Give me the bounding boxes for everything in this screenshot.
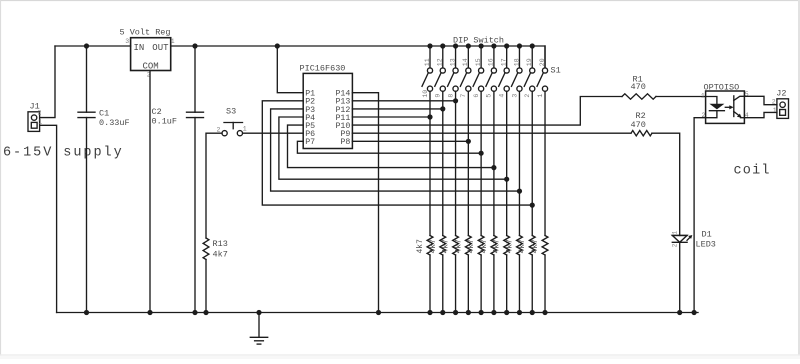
capacitor C1 xyxy=(78,46,95,313)
optocoupler U3 OPTOISO xyxy=(706,91,745,123)
svg-text:12: 12 xyxy=(437,58,444,66)
svg-text:P8: P8 xyxy=(340,138,350,147)
svg-text:15: 15 xyxy=(475,58,482,66)
LED D1 xyxy=(672,235,692,242)
svg-text:D1: D1 xyxy=(702,229,712,239)
wire input rail xyxy=(55,45,131,47)
wire R2 to D1 xyxy=(652,133,680,235)
junction column 6 bus xyxy=(491,310,496,315)
switch S1 section 3 xyxy=(448,46,459,236)
junction DIP column 6 rail xyxy=(491,43,496,48)
svg-text:LED3: LED3 xyxy=(696,240,716,250)
svg-text:J2: J2 xyxy=(776,88,786,98)
svg-text:10: 10 xyxy=(422,90,429,98)
switch S1 section 2 xyxy=(435,46,446,236)
svg-text:COM: COM xyxy=(143,61,159,71)
connector J1 xyxy=(28,112,40,132)
wire P9 to R2 xyxy=(352,132,631,134)
junction P7 column xyxy=(479,151,484,156)
wire P3 to DIP column xyxy=(271,109,520,191)
junction DIP column 8 rail xyxy=(517,43,522,48)
svg-text:1: 1 xyxy=(38,119,42,126)
svg-text:4k7: 4k7 xyxy=(505,239,514,254)
svg-text:2: 2 xyxy=(38,110,42,117)
switch S1 section 5 xyxy=(473,46,484,236)
svg-text:20: 20 xyxy=(539,58,546,66)
wire regulator COM to ground bus xyxy=(149,71,151,313)
junction column 5 bus xyxy=(479,310,484,315)
switch S1 section 1 xyxy=(422,46,433,236)
resistor R2 xyxy=(631,131,652,136)
resistor R2 4k7 xyxy=(427,236,433,313)
wire P13 to DIP column xyxy=(352,100,455,102)
svg-text:4k7: 4k7 xyxy=(442,239,451,254)
wire P5 to DIP column xyxy=(288,125,494,168)
junction column 10 bus xyxy=(542,310,547,315)
junction P8 column xyxy=(466,139,471,144)
frame bottom band xyxy=(0,354,800,355)
regulator U1 5 Volt Reg xyxy=(131,38,171,72)
frame right edge xyxy=(798,0,800,359)
switch S1 section 8 xyxy=(511,46,522,236)
wire P7 to DIP column xyxy=(297,141,481,153)
wire P2 to DIP column xyxy=(262,101,532,205)
junction P14 bus xyxy=(376,310,381,315)
resistor R9 4k7 xyxy=(517,236,523,313)
resistor R13 xyxy=(203,238,209,313)
svg-text:6: 6 xyxy=(473,94,480,98)
junction R13 bottom xyxy=(203,310,208,315)
wire opto pin5 to J2 pin2 xyxy=(744,96,777,104)
svg-text:19: 19 xyxy=(526,58,533,66)
wire P8 to DIP column xyxy=(352,140,468,142)
svg-text:4k7: 4k7 xyxy=(467,239,476,254)
ground symbol xyxy=(250,313,267,345)
resistor R5 4k7 xyxy=(465,236,471,313)
frame top edge xyxy=(0,0,800,1)
junction DIP column 2 rail xyxy=(440,43,445,48)
junction C1 bottom xyxy=(84,310,89,315)
svg-text:OPTOISO: OPTOISO xyxy=(704,82,740,92)
switch S1 section 7 xyxy=(499,46,510,236)
svg-text:4k7: 4k7 xyxy=(480,239,489,254)
svg-text:4k7: 4k7 xyxy=(518,239,527,254)
svg-text:4k7: 4k7 xyxy=(454,239,463,254)
svg-text:0.33uF: 0.33uF xyxy=(99,118,130,128)
svg-text:8: 8 xyxy=(447,94,454,98)
resistor R6 4k7 xyxy=(478,236,484,313)
svg-text:4: 4 xyxy=(498,94,505,98)
junction column 3 bus xyxy=(453,310,458,315)
wire ground bus xyxy=(57,312,698,314)
wire R1 to opto pin1 xyxy=(656,96,706,98)
svg-text:2: 2 xyxy=(524,94,531,98)
svg-text:14: 14 xyxy=(462,58,469,66)
svg-text:2: 2 xyxy=(772,98,776,105)
svg-text:6-15V supply: 6-15V supply xyxy=(3,145,124,160)
junction opto pin2 bus xyxy=(692,310,697,315)
frame left edge xyxy=(0,0,1,359)
svg-text:470: 470 xyxy=(631,120,646,130)
wire opto pin2 to ground bus xyxy=(694,118,706,313)
junction DIP column 4 rail xyxy=(466,43,471,48)
svg-text:P7: P7 xyxy=(305,138,315,147)
junction column 2 bus xyxy=(440,310,445,315)
junction column 9 bus xyxy=(530,310,535,315)
switch S1 section 9 xyxy=(524,46,535,236)
svg-text:4k7: 4k7 xyxy=(493,239,502,254)
svg-text:4k7: 4k7 xyxy=(429,239,438,254)
svg-text:5: 5 xyxy=(486,94,493,98)
svg-text:4k7: 4k7 xyxy=(213,250,228,260)
svg-text:5 Volt Reg: 5 Volt Reg xyxy=(120,28,171,38)
svg-text:13: 13 xyxy=(449,58,456,66)
svg-text:coil: coil xyxy=(734,164,771,179)
junction P5 column xyxy=(491,165,496,170)
connector J2 xyxy=(777,99,789,119)
wire P11 to DIP column xyxy=(352,116,430,118)
wire S3 pin1 to P6 xyxy=(243,132,304,134)
svg-text:4k7: 4k7 xyxy=(531,239,540,254)
resistor R3 4k7 xyxy=(440,236,446,313)
resistor R1 xyxy=(622,94,656,99)
wire +5V rail xyxy=(171,46,545,68)
junction ground xyxy=(256,310,261,315)
junction P11 column xyxy=(427,114,432,119)
svg-text:16: 16 xyxy=(488,58,495,66)
junction C1 top xyxy=(84,43,89,48)
svg-text:R13: R13 xyxy=(213,239,228,249)
junction DIP column 1 rail xyxy=(427,43,432,48)
junction C2 top xyxy=(192,43,197,48)
svg-text:3: 3 xyxy=(511,94,518,98)
wire opto pin4 to J2 pin1 xyxy=(744,112,777,117)
junction P2 column xyxy=(530,203,535,208)
svg-text:7: 7 xyxy=(460,94,467,98)
junction column 4 bus xyxy=(466,310,471,315)
junction DIP column 9 rail xyxy=(530,43,535,48)
svg-text:470: 470 xyxy=(631,82,646,92)
resistor R8 4k7 xyxy=(504,236,510,313)
junction COM bottom xyxy=(147,310,152,315)
switch S1 section 10 xyxy=(537,46,548,236)
junction C2 bottom xyxy=(192,310,197,315)
junction column 7 bus xyxy=(504,310,509,315)
junction P3 column xyxy=(517,189,522,194)
junction column 8 bus xyxy=(517,310,522,315)
junction P1 rail xyxy=(275,43,280,48)
wire P4 to DIP column xyxy=(279,117,507,179)
svg-text:DIP Switch: DIP Switch xyxy=(453,36,504,46)
wire J1 pin1 to ground bus xyxy=(40,125,57,312)
wire P14 to ground bus xyxy=(352,93,378,313)
svg-text:2: 2 xyxy=(671,243,678,247)
svg-text:1: 1 xyxy=(537,94,544,98)
switch S1 section 4 xyxy=(460,46,471,236)
svg-text:4k7: 4k7 xyxy=(416,239,425,254)
svg-text:3: 3 xyxy=(125,38,129,45)
svg-text:0.1uF: 0.1uF xyxy=(152,116,178,126)
svg-text:18: 18 xyxy=(513,58,520,66)
junction DIP column 5 rail xyxy=(479,43,484,48)
svg-text:OUT: OUT xyxy=(152,43,169,53)
svg-text:PIC16F630: PIC16F630 xyxy=(300,64,346,74)
svg-text:17: 17 xyxy=(500,58,507,66)
svg-text:1: 1 xyxy=(671,231,678,235)
microcontroller U2 PIC16F630 xyxy=(303,73,352,148)
junction P4 column xyxy=(504,177,509,182)
svg-text:1: 1 xyxy=(243,126,247,133)
svg-text:1: 1 xyxy=(171,38,175,45)
svg-text:1: 1 xyxy=(773,107,777,114)
junction DIP column 7 rail xyxy=(504,43,509,48)
wire P12 to DIP column xyxy=(352,108,442,110)
wire J1 pin2 to +5V rail xyxy=(40,46,55,118)
wire P1 to +5V rail xyxy=(277,46,303,93)
capacitor C2 xyxy=(187,46,204,313)
resistor R7 4k7 xyxy=(491,236,497,313)
resistor R4 4k7 xyxy=(453,236,459,313)
junction DIP column 3 rail xyxy=(453,43,458,48)
resistor R10 4k7 xyxy=(529,236,535,313)
wire P10 to R1 xyxy=(352,97,622,126)
svg-text:2: 2 xyxy=(217,127,221,134)
wire S3 pin2 to R13 xyxy=(206,133,222,238)
svg-text:IN: IN xyxy=(134,43,145,53)
resistor R11 4k7 xyxy=(542,236,548,313)
wire D1 to ground bus xyxy=(679,242,681,312)
switch S1 section 6 xyxy=(486,46,497,236)
svg-text:S3: S3 xyxy=(226,107,236,117)
junction D1 bus xyxy=(677,310,682,315)
svg-text:9: 9 xyxy=(435,94,442,98)
pushbutton S3 xyxy=(222,123,243,136)
svg-text:11: 11 xyxy=(424,58,431,66)
svg-text:S1: S1 xyxy=(551,66,561,76)
svg-text:1: 1 xyxy=(701,92,705,99)
junction P13 column xyxy=(453,98,458,103)
junction P12 column xyxy=(440,106,445,111)
junction column 1 bus xyxy=(427,310,432,315)
